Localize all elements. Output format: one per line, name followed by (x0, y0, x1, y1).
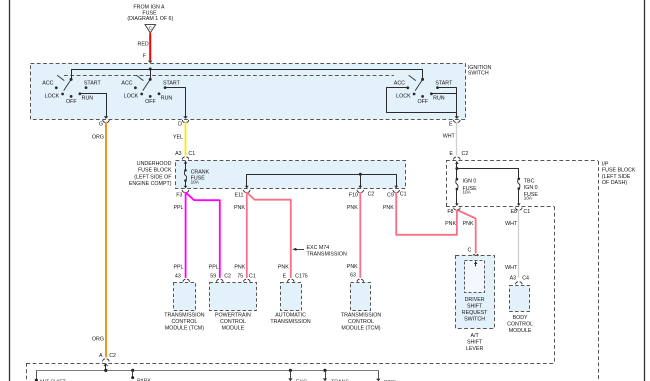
svg-text:RUN: RUN (82, 95, 94, 101)
svg-text:TRANSMISSION: TRANSMISSION (307, 251, 347, 257)
svg-text:PPL: PPL (173, 265, 183, 271)
svg-text:YEL: YEL (173, 135, 183, 141)
svg-text:C2: C2 (462, 151, 469, 157)
svg-text:ACC: ACC (121, 80, 132, 86)
svg-text:E: E (449, 121, 453, 127)
svg-text:C: C (149, 26, 152, 31)
svg-text:PNK: PNK (234, 265, 245, 271)
svg-text:START: START (84, 80, 102, 86)
svg-text:TRANSMISSION: TRANSMISSION (270, 319, 310, 325)
svg-text:LOCK: LOCK (124, 94, 139, 100)
svg-text:C4: C4 (522, 275, 529, 281)
svg-text:START: START (163, 80, 181, 86)
svg-text:ACC: ACC (394, 80, 405, 86)
svg-text:WHT: WHT (505, 265, 518, 271)
svg-text:PPL: PPL (209, 265, 219, 271)
svg-text:TRANSMISSION: TRANSMISSION (164, 312, 204, 318)
svg-text:MODULE (TCM): MODULE (TCM) (341, 325, 380, 331)
svg-text:ACC: ACC (42, 80, 53, 86)
svg-text:75: 75 (237, 274, 243, 280)
svg-text:RED: RED (138, 42, 149, 48)
svg-text:63: 63 (350, 272, 356, 278)
svg-text:OF DASH): OF DASH) (602, 180, 628, 186)
svg-text:PNK: PNK (347, 264, 358, 270)
svg-text:PNK: PNK (463, 221, 474, 227)
svg-text:10A: 10A (191, 180, 200, 185)
svg-text:(LEFT SIDE OF: (LEFT SIDE OF (134, 174, 172, 180)
svg-text:(DIAGRAM 1 OF 6): (DIAGRAM 1 OF 6) (127, 16, 173, 22)
svg-text:C1: C1 (400, 192, 407, 198)
svg-text:OFF: OFF (66, 99, 77, 105)
svg-text:E: E (449, 151, 453, 157)
svg-text:C: C (467, 247, 471, 253)
svg-text:TBC: TBC (524, 178, 535, 184)
svg-text:FUSE BLOCK: FUSE BLOCK (602, 168, 636, 174)
svg-text:CONTROL: CONTROL (171, 319, 197, 325)
svg-text:SHIFT: SHIFT (467, 340, 483, 346)
svg-text:DRIVER: DRIVER (465, 297, 485, 303)
svg-text:OFF: OFF (418, 99, 429, 105)
svg-text:TRANSMISSION: TRANSMISSION (341, 312, 381, 318)
svg-text:IGN 0: IGN 0 (524, 185, 538, 191)
svg-text:A/T: A/T (470, 333, 479, 339)
svg-text:LOCK: LOCK (45, 94, 60, 100)
svg-text:SWITCH: SWITCH (468, 70, 489, 76)
svg-text:PNK: PNK (278, 265, 289, 271)
svg-text:LOCK: LOCK (396, 94, 411, 100)
svg-text:10A: 10A (463, 190, 472, 195)
svg-text:C2: C2 (109, 353, 116, 359)
svg-text:ENGINE COMPT): ENGINE COMPT) (129, 181, 172, 187)
svg-text:RUN: RUN (161, 95, 173, 101)
svg-text:59: 59 (210, 274, 216, 280)
svg-text:UNDERHOOD: UNDERHOOD (137, 161, 172, 167)
svg-text:EXC M74: EXC M74 (307, 245, 330, 251)
svg-text:MODULE: MODULE (509, 328, 532, 334)
svg-text:E11: E11 (234, 192, 243, 198)
svg-text:PNK: PNK (383, 205, 394, 211)
svg-text:PPL: PPL (173, 205, 183, 211)
svg-text:E8: E8 (511, 209, 518, 215)
svg-text:WHT: WHT (505, 221, 518, 227)
svg-text:(LEFT SIDE: (LEFT SIDE (602, 174, 631, 180)
svg-text:C9: C9 (387, 192, 394, 198)
svg-text:MODULE (TCM): MODULE (TCM) (165, 325, 204, 331)
svg-text:A: A (99, 353, 103, 359)
svg-text:C2: C2 (224, 274, 231, 280)
svg-text:F8: F8 (447, 209, 453, 215)
svg-text:AUTOMATIC: AUTOMATIC (275, 312, 306, 318)
svg-text:POWERTRAIN: POWERTRAIN (215, 312, 251, 318)
svg-text:C175: C175 (295, 274, 308, 280)
svg-text:IGN 0: IGN 0 (463, 179, 477, 185)
svg-text:C1: C1 (523, 209, 530, 215)
svg-text:C1: C1 (188, 151, 195, 157)
svg-text:WHT: WHT (443, 134, 456, 140)
svg-text:OFF: OFF (145, 99, 156, 105)
svg-text:BODY: BODY (513, 315, 528, 321)
svg-text:SHIFT: SHIFT (467, 304, 483, 310)
svg-text:E: E (283, 274, 287, 280)
svg-text:SWITCH: SWITCH (464, 317, 485, 323)
svg-text:10A: 10A (524, 196, 533, 201)
svg-text:43: 43 (175, 274, 181, 280)
svg-text:F3: F3 (176, 192, 182, 198)
svg-text:I/P: I/P (602, 161, 609, 167)
svg-text:PNK: PNK (445, 221, 456, 227)
svg-text:LEVER: LEVER (466, 346, 484, 352)
svg-text:START: START (435, 80, 453, 86)
svg-text:FUSE BLOCK: FUSE BLOCK (138, 168, 172, 174)
svg-text:C2: C2 (368, 192, 375, 198)
svg-text:ORG: ORG (92, 135, 104, 141)
svg-text:RUN: RUN (433, 95, 445, 101)
svg-text:G: G (99, 122, 103, 128)
svg-text:D: D (178, 122, 182, 128)
svg-text:C1: C1 (249, 274, 256, 280)
svg-text:REQUEST: REQUEST (462, 310, 488, 316)
svg-text:A3: A3 (175, 151, 182, 157)
svg-text:PNK: PNK (234, 205, 245, 211)
svg-text:A3: A3 (510, 275, 517, 281)
svg-text:CONTROL: CONTROL (220, 319, 246, 325)
svg-text:CONTROL: CONTROL (348, 319, 374, 325)
svg-text:ORG: ORG (92, 337, 104, 343)
svg-text:CONTROL: CONTROL (507, 322, 533, 328)
svg-text:F10: F10 (349, 192, 358, 198)
svg-text:MODULE: MODULE (222, 325, 245, 331)
svg-text:PNK: PNK (347, 205, 358, 211)
